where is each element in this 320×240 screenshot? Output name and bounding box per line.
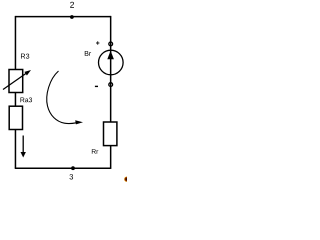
- label 3: [69, 174, 73, 179]
- label 2: [70, 2, 74, 8]
- wire left lower: [14, 129, 16, 168]
- resistor Rr: [104, 122, 117, 146]
- node 2 dot: [70, 15, 74, 19]
- wire left upper: [14, 16, 16, 71]
- red indicator dot: [124, 177, 129, 182]
- current arrow I3 (down): [21, 136, 26, 158]
- label Ra3: [20, 97, 32, 102]
- wire right upper / source shaft: [110, 16, 112, 123]
- label +: [96, 41, 99, 44]
- source Br circle: [99, 50, 124, 75]
- wire top: [15, 16, 110, 18]
- wire right lower: [110, 145, 112, 169]
- wire left middle: [14, 92, 16, 107]
- source terminal bottom: [109, 83, 113, 87]
- source arrow head (up): [107, 51, 114, 60]
- label R3: [21, 54, 29, 59]
- node 3 dot: [71, 166, 75, 170]
- source terminal top: [109, 42, 113, 46]
- resistor R3 (variable): [3, 70, 31, 93]
- label Rr: [92, 149, 98, 154]
- wire bottom: [15, 167, 111, 169]
- resistor Ra3: [9, 106, 22, 129]
- label -: [95, 85, 98, 87]
- label Br: [85, 51, 91, 56]
- current loop arrow (curved): [47, 71, 83, 124]
